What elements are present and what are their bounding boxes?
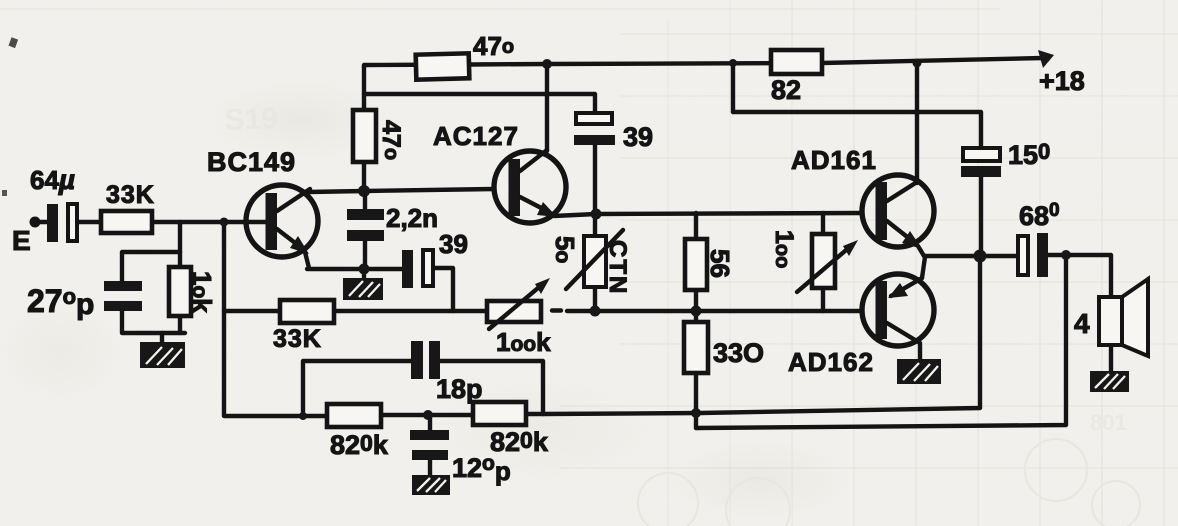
wire: 820k right to rail A: [526, 412, 543, 416]
resistor 82: [771, 50, 822, 74]
capacitor 270p: [104, 281, 142, 291]
ground (AD162 collector): [897, 359, 941, 384]
wire: AD162 collector to ground: [918, 344, 922, 359]
wire: AD161 collector vertical: [915, 63, 919, 183]
wire: 120p top stem: [428, 415, 432, 430]
wire: AC127 collector vertical: [545, 64, 549, 151]
wire: 330 bottom stem down through rail A to rail B: [694, 373, 698, 428]
wire: AD161 base wire: [596, 213, 862, 214]
wire: 470 vertical resistor bottom stem to collector node: [362, 161, 366, 191]
resistor 56: [685, 239, 707, 290]
ground (120p): [412, 475, 450, 495]
node: AD161 collector at rail: [913, 59, 922, 68]
svg-text:39: 39: [439, 229, 468, 259]
wire: 18p bracket right side down to rail A start: [440, 361, 543, 414]
capacitor 39 (AC127 collector): [576, 113, 612, 124]
wire: ground stem below emitter wire: [362, 269, 366, 278]
wire: BC149 collector to AC127 base: [308, 189, 494, 192]
wire: 39 cap right plate to feedback line: [433, 268, 453, 311]
wire: left vertical from rail corner down to 470 vertical resistor: [362, 66, 366, 111]
node: emitter / 2,2n / ground junction: [359, 264, 370, 275]
terminal E (input): [30, 217, 41, 228]
svg-text:820k: 820k: [490, 427, 549, 457]
svg-text:18p: 18p: [436, 374, 483, 404]
resistor 330: [684, 322, 708, 373]
node: rail A / 330 crossing: [691, 408, 701, 418]
wire: 330 top stem: [694, 311, 698, 322]
svg-text:AC127: AC127: [433, 121, 519, 151]
node: 18p left leg on rail: [299, 412, 307, 420]
wire: bootstrap line y112 to 150 cap: [733, 112, 981, 148]
wire: 100 rheostat stems: [821, 213, 825, 234]
wire: AC127 emitter to junction node: [554, 214, 596, 216]
node: base junction input: [220, 218, 229, 227]
wire: 2,2n bottom stem: [363, 240, 367, 269]
capacitor 64µ: [47, 204, 58, 242]
wire: BC149 emitter wire to 39 cap: [307, 267, 402, 271]
wire: 56 stems: [694, 213, 698, 239]
ground (speaker): [1090, 371, 1129, 392]
wire: bracket to 270p top: [122, 252, 180, 281]
wire: 680 cap to speaker drop: [1048, 255, 1111, 297]
ground (input divider): [140, 342, 185, 368]
svg-text:+18: +18: [1039, 66, 1085, 96]
node: CTN bottom on feedback line: [590, 306, 601, 317]
thermistor CTN 50: [566, 230, 623, 289]
transistor AC127: [494, 150, 566, 223]
rheostat 100: [797, 234, 858, 292]
capacitor 39 (emitter bypass): [402, 250, 413, 288]
wire: 150 cap bottom stem to output node: [979, 177, 983, 256]
wire: input wire E to BC149 base: [39, 220, 47, 224]
resistor 33K (feedback): [280, 300, 334, 323]
wire: +V top rail: [364, 58, 1043, 67]
wire: rail A to output node vertical: [543, 256, 980, 414]
wire: feedback line to AD162 base: [567, 309, 862, 313]
svg-text:E: E: [12, 225, 31, 256]
wire: dash after 100k pot: [552, 308, 561, 312]
svg-text:S19: S19: [224, 102, 279, 137]
wire: 120p bottom stem to ground: [428, 459, 432, 475]
transistor BC149: [246, 185, 318, 268]
resistor 33K (input): [101, 211, 152, 233]
svg-text:33K: 33K: [106, 181, 155, 209]
node: 82 bypass at rail: [729, 59, 737, 67]
node: between 820k resistors: [423, 410, 433, 420]
wire: speaker bottom stem: [1109, 345, 1113, 371]
transistor AD162: [862, 274, 934, 346]
wire: bootstrap line y94 from left vertical to 39 cap drop: [364, 94, 595, 113]
wire: 18p bracket left vertical: [303, 361, 411, 416]
capacitor 120p: [410, 430, 449, 440]
transistor AD161: [862, 175, 934, 256]
wire: output wire emitters to 680 cap: [924, 254, 1018, 258]
svg-text:AD161: AD161: [791, 145, 877, 175]
resistor 470 vertical: [353, 110, 376, 162]
node: output node at 150 cap: [974, 250, 987, 263]
svg-text:56: 56: [705, 249, 735, 278]
capacitor 680: [1018, 236, 1028, 275]
capacitor 2,2n: [347, 209, 384, 220]
wire: feedback line from input vertical to 33K: [224, 309, 280, 313]
capacitor 150: [963, 148, 1000, 161]
wire: ground stem below 270p/10k: [160, 333, 164, 342]
node: output after 680 cap: [1061, 250, 1071, 260]
svg-text:33K: 33K: [273, 325, 322, 353]
svg-text:AD162: AD162: [788, 347, 874, 377]
node: BC149 collector / 470 junction: [358, 185, 370, 197]
capacitor 18p: [411, 341, 423, 379]
resistor 820k (right): [473, 402, 526, 425]
node: AC127 emitter / 39 / CTN junction: [591, 209, 602, 220]
wire: bottom-left rail between 820k resistors: [381, 413, 473, 417]
node: 56 / 330 junction: [691, 306, 702, 317]
svg-text:33O: 33O: [713, 338, 764, 368]
resistor 820k (left): [327, 404, 381, 427]
wire: 82 bypass vertical at rail: [731, 63, 735, 112]
potentiometer 100k: [487, 278, 550, 329]
speaker 4 ohm: [1099, 279, 1148, 356]
wire: drop from input wire to 10k top: [178, 222, 182, 252]
resistor 10k: [169, 267, 191, 316]
svg-text:39: 39: [623, 122, 653, 152]
wire: CTN stems: [593, 214, 597, 236]
svg-text:BC149: BC149: [207, 147, 296, 177]
svg-text:64µ: 64µ: [30, 164, 75, 195]
wire: 2,2n top stem: [363, 191, 367, 210]
wire: input vertical down to bottom-left rail: [224, 222, 327, 416]
resistor 470 horizontal (top rail): [416, 53, 470, 79]
svg-text:820k: 820k: [330, 430, 389, 460]
wire: 10k stems: [178, 252, 182, 267]
ground (BC149 emitter): [343, 278, 383, 300]
svg-text:27op: 27op: [27, 283, 94, 321]
wire: rail B from 330 to output cap side vertical: [696, 255, 1066, 428]
node: AC127 collector at rail: [542, 59, 552, 69]
svg-text:82: 82: [771, 75, 801, 105]
wire: 270p bottom to bracket: [122, 311, 185, 333]
svg-text:1oo: 1oo: [770, 230, 798, 268]
svg-text:4: 4: [1074, 308, 1090, 339]
svg-text:2,2n: 2,2n: [386, 203, 438, 233]
svg-text:801: 801: [1090, 410, 1127, 435]
wire: 33K to 100k pot: [334, 309, 487, 313]
wire: 39v cap bottom stem down to AD161 base wire: [593, 145, 597, 214]
svg-text:47o: 47o: [377, 120, 405, 160]
svg-text:12op: 12op: [452, 452, 511, 486]
wire: AD162 emitter to output node: [922, 257, 925, 278]
terminal +18: [1040, 53, 1050, 63]
svg-text:47o: 47o: [473, 31, 514, 61]
svg-text:CTN: CTN: [604, 240, 631, 295]
